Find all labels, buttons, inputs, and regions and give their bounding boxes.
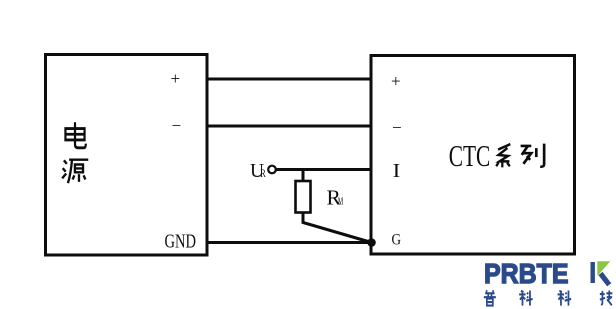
- svg-text:+: +: [171, 69, 181, 88]
- logo character 科 (first): [519, 291, 533, 306]
- label 列 (device name): [521, 144, 545, 167]
- svg-text:+: +: [391, 72, 401, 91]
- junction dot at G: [367, 238, 376, 247]
- node UR terminal circle: [268, 166, 276, 174]
- svg-text:M: M: [338, 197, 343, 208]
- svg-text:−: −: [392, 118, 402, 137]
- svg-text:R: R: [260, 168, 266, 180]
- svg-text:G: G: [392, 232, 402, 249]
- PRBTEK logo K leg: [601, 274, 610, 285]
- svg-text:PRBTE: PRBTE: [484, 258, 569, 289]
- svg-text:−: −: [172, 116, 182, 135]
- logo character 普: [484, 290, 496, 305]
- svg-text:CTC: CTC: [449, 138, 491, 173]
- PRBTEK logo K stem: [591, 262, 595, 283]
- svg-text:GND: GND: [165, 232, 197, 253]
- wire - (negative supply wire): [208, 125, 371, 128]
- wire GND to G: [208, 241, 372, 244]
- wire + (positive supply wire): [208, 78, 371, 81]
- CTC series device box: [371, 56, 575, 255]
- label 源 (power supply line 2): [62, 160, 88, 183]
- svg-text:I: I: [393, 160, 401, 182]
- power supply box 电源: [46, 55, 208, 256]
- PRBTEK logo K green wedge: [597, 261, 610, 276]
- logo character 技: [600, 291, 612, 306]
- label 系 (device name): [496, 144, 510, 167]
- logo character 科 (second): [558, 291, 572, 306]
- wire UR to I terminal: [276, 168, 371, 171]
- resistor RM: [296, 170, 372, 243]
- label 电 (power supply line 1): [65, 122, 85, 148]
